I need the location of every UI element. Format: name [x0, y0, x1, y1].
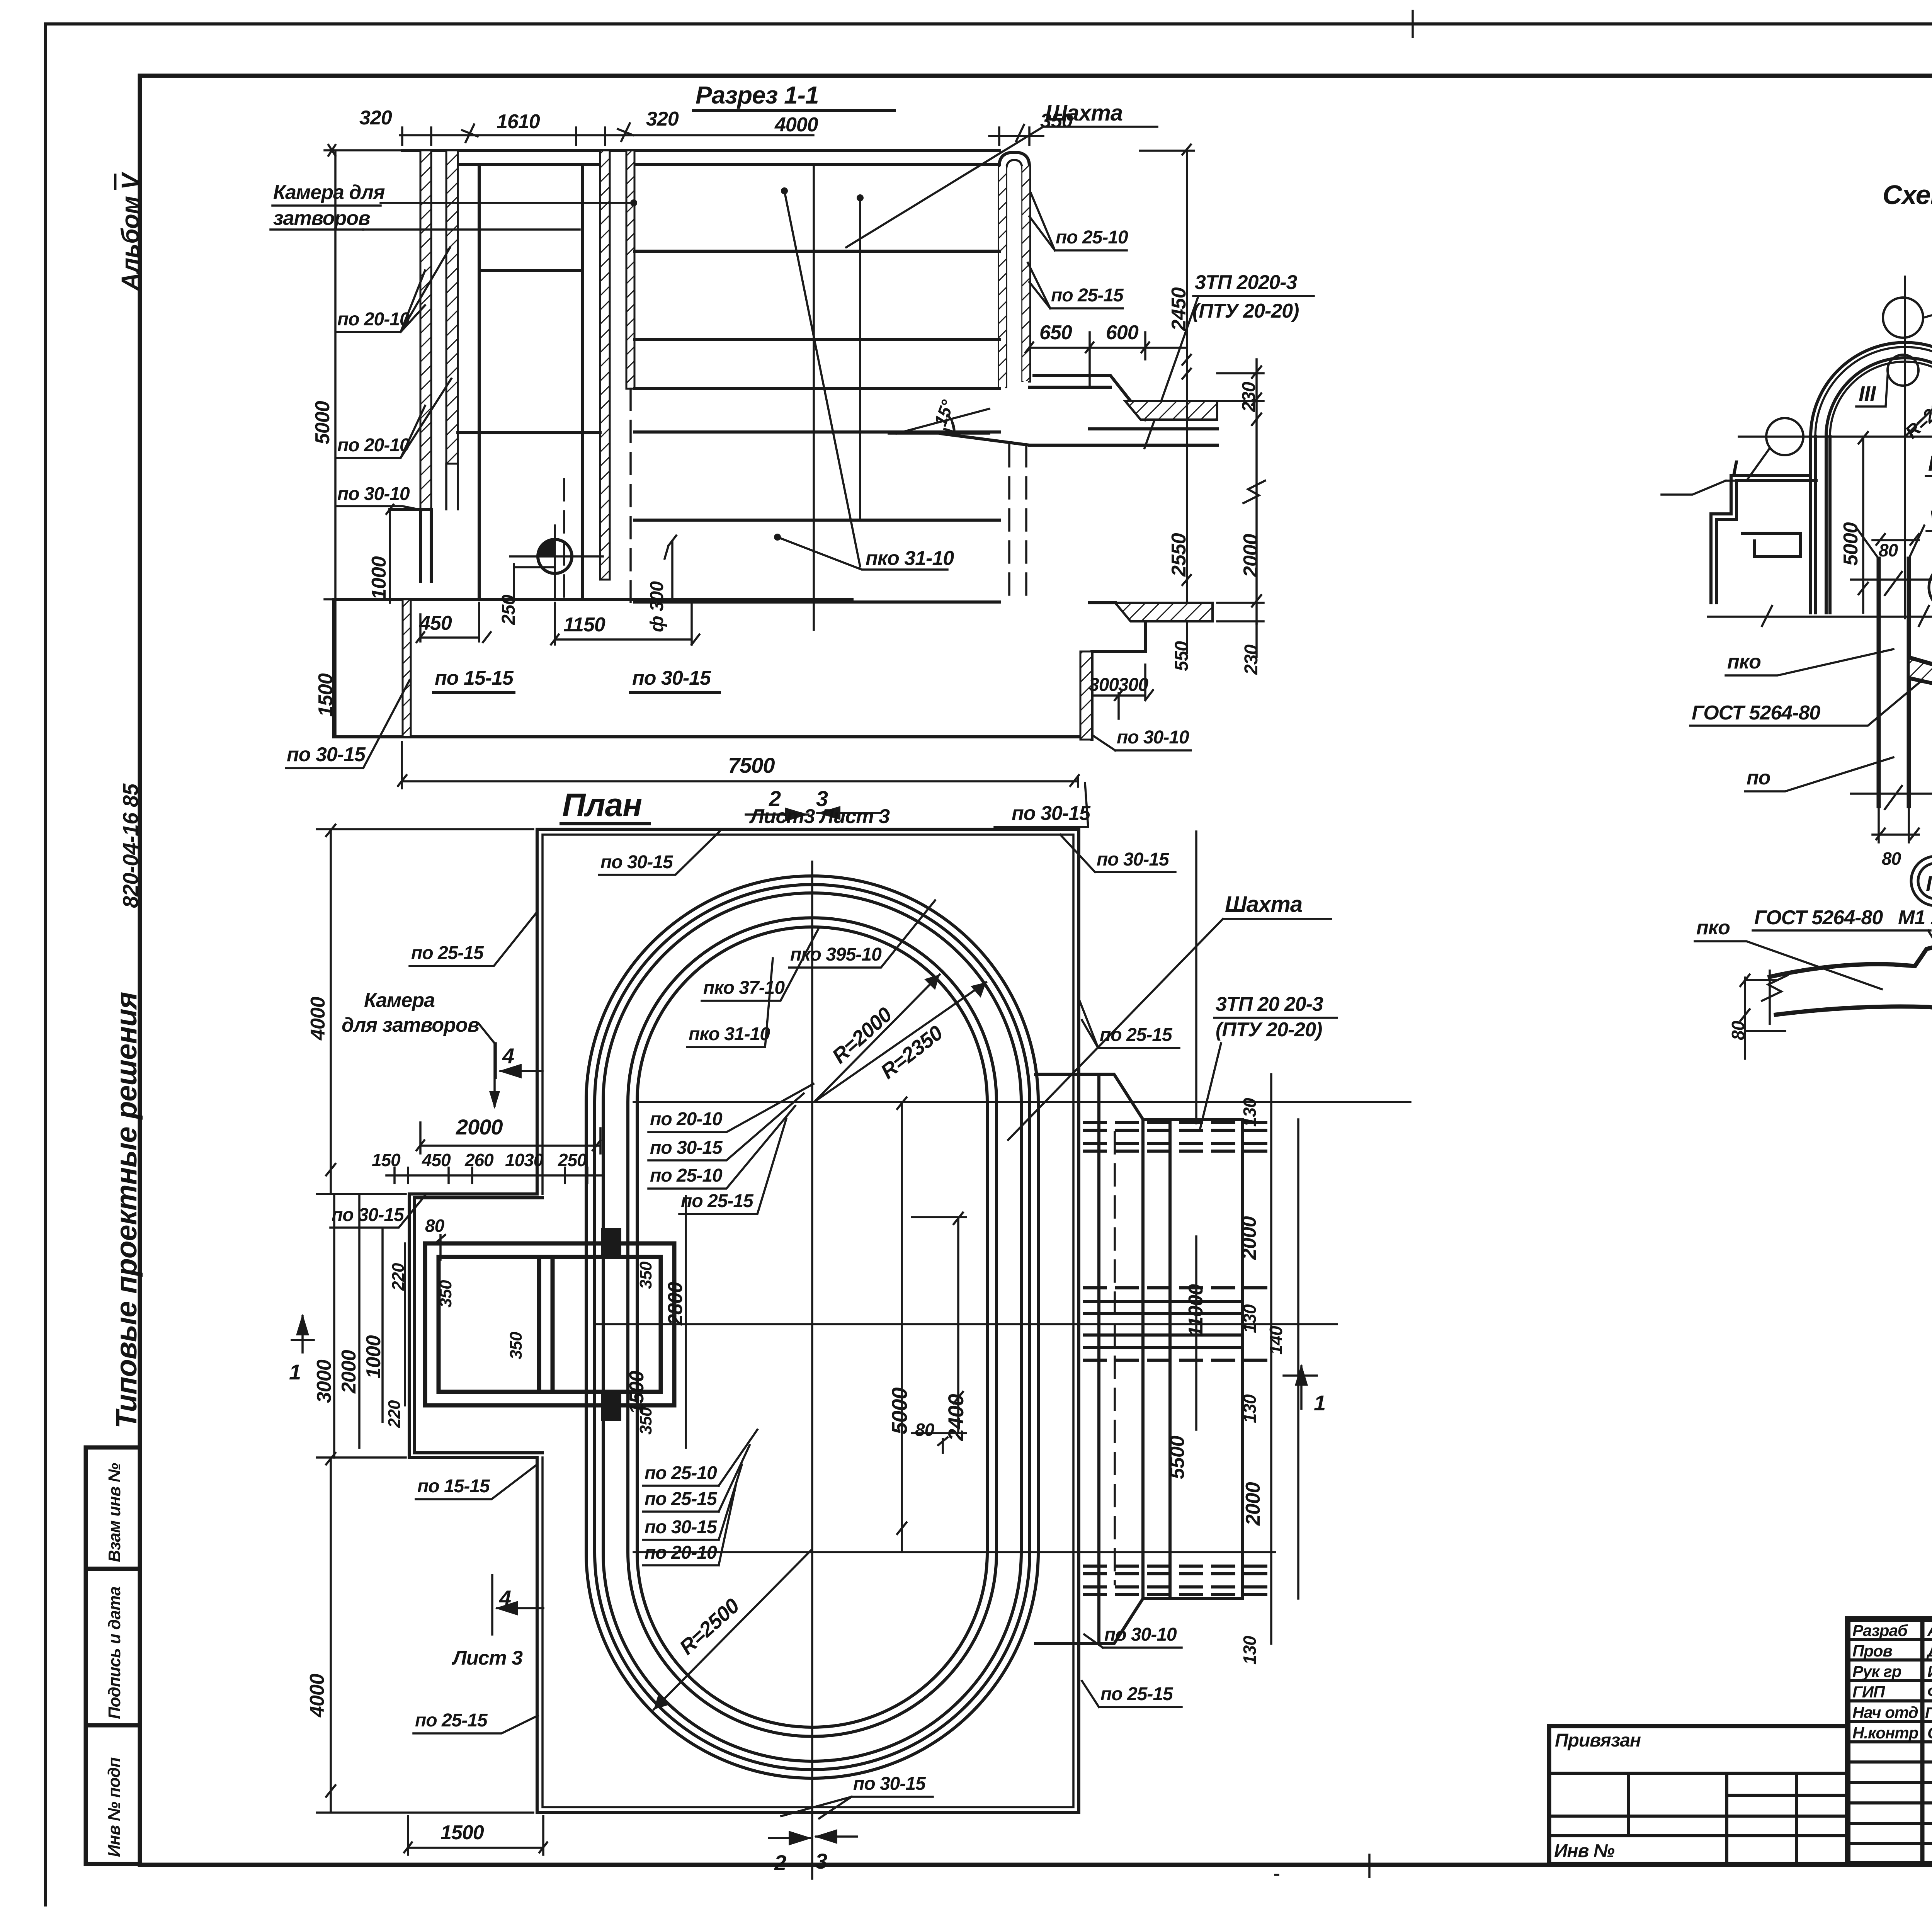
dim 130 a — [1240, 1098, 1260, 1127]
svg-text:III: III — [1859, 381, 1876, 406]
lower pipe dashed lines — [1084, 1566, 1271, 1595]
svg-text:Камера: Камера — [364, 989, 435, 1012]
svg-text:5000: 5000 — [1840, 522, 1862, 566]
svg-text:1: 1 — [1314, 1391, 1325, 1415]
svg-text:Лист 3: Лист 3 — [451, 1647, 523, 1669]
dashed verticals under right wall — [1009, 445, 1026, 603]
svg-text:1000: 1000 — [368, 556, 390, 600]
I flange hatch — [1909, 658, 1932, 683]
dim 130 c — [1240, 1394, 1260, 1423]
svg-text:IV: IV — [1928, 451, 1932, 475]
svg-text:Рук гр: Рук гр — [1852, 1662, 1901, 1680]
svg-text:пко 37-10: пко 37-10 — [703, 978, 785, 998]
dim 4000 upper left — [307, 997, 329, 1041]
svg-text:130: 130 — [1240, 1394, 1260, 1423]
outer border top — [46, 22, 1932, 26]
arch left wall — [1811, 437, 1830, 613]
outlet lower hatched slab — [1115, 603, 1213, 621]
svg-text:затворов: затворов — [273, 207, 370, 230]
svg-text:3ТП 20 20-3: 3ТП 20 20-3 — [1216, 993, 1323, 1015]
svg-text:по 25-10: по 25-10 — [645, 1463, 717, 1483]
svg-text:(ПТУ 20-20): (ПТУ 20-20) — [1192, 300, 1299, 322]
svg-text:для затворов: для затворов — [342, 1014, 480, 1036]
shaft centerline — [813, 165, 815, 630]
middle pipe lines — [1084, 1301, 1243, 1347]
svg-text:по 25-10: по 25-10 — [650, 1165, 723, 1186]
outlet pipe top lines — [1029, 376, 1145, 420]
svg-text:по 15-15: по 15-15 — [417, 1476, 490, 1497]
dim 2000 b — [1242, 1482, 1264, 1526]
dim 2400 — [944, 1394, 968, 1441]
upper pipe dashed lines — [1084, 1122, 1271, 1151]
horizontal centerline middle — [595, 1323, 1337, 1325]
svg-text:ГОСТ 5264-80: ГОСТ 5264-80 — [1754, 906, 1883, 929]
svg-text:1150: 1150 — [563, 614, 605, 636]
margin text 820-04-1685 — [118, 783, 143, 908]
dim 140 — [1266, 1326, 1286, 1355]
svg-text:300: 300 — [1089, 675, 1119, 695]
svg-text:по 30-15: по 30-15 — [332, 1205, 405, 1225]
break mark 2 — [618, 123, 633, 141]
detail circle I left — [1766, 418, 1803, 455]
svg-text:по 30-15: по 30-15 — [632, 667, 711, 689]
svg-text:по 30-15: по 30-15 — [650, 1138, 723, 1158]
svg-text:2800: 2800 — [664, 1282, 687, 1326]
dim 1000 left — [362, 1335, 385, 1379]
detail I wall — [1879, 559, 1909, 806]
shaft right wall W5 W6 with rounded cap — [999, 152, 1029, 387]
detail II slab — [1770, 947, 1932, 977]
horizontal centerline top arc — [634, 1101, 1410, 1103]
R=2350 arrow — [815, 982, 986, 1102]
outlet top hatched slab — [1125, 401, 1217, 420]
dim 5000 text — [311, 401, 334, 444]
chamber inner wall W2 lower — [446, 464, 458, 509]
chamber inner wall W2 hatched — [446, 150, 458, 464]
svg-text:Разрез 1-1: Разрез 1-1 — [696, 81, 819, 109]
stamp box podpis i data — [86, 1569, 140, 1725]
svg-text:по 20-10: по 20-10 — [337, 435, 410, 456]
svg-text:820-04-16 85: 820-04-16 85 — [118, 783, 143, 908]
svg-text:Девяшин: Девяшин — [1926, 1642, 1932, 1660]
svg-text:Франк: Франк — [1927, 1683, 1932, 1701]
right wall hatch — [999, 166, 1006, 387]
svg-text:по 25-10: по 25-10 — [1056, 227, 1128, 248]
svg-text:2000: 2000 — [1238, 1216, 1260, 1260]
vertical centerline — [811, 862, 813, 1801]
svg-text:80: 80 — [1882, 849, 1901, 869]
chamber annex boundary — [409, 1194, 543, 1458]
dim 4000 lower left — [306, 1673, 328, 1718]
svg-text:по: по — [1747, 767, 1770, 789]
svg-text:по 15-15: по 15-15 — [435, 667, 514, 689]
svg-text:Типовые проектные решения: Типовые проектные решения — [110, 992, 143, 1429]
stadium ring 5 inner — [637, 927, 987, 1727]
outer border left — [44, 24, 47, 1905]
R=2500 arrow — [654, 1550, 811, 1709]
plan outer boundary double line — [537, 829, 1079, 1813]
dim 220 bottom — [385, 1400, 404, 1428]
sig table columns — [1922, 1619, 1932, 1864]
chamber walls inner — [439, 1257, 661, 1392]
top line of structure — [402, 149, 999, 152]
SCHEMES — [1662, 180, 1932, 1078]
svg-text:Разраб: Разраб — [1852, 1621, 1908, 1639]
arch arc 2 — [1815, 347, 1932, 437]
svg-text:I: I — [1732, 456, 1738, 480]
foundation left hatched edge — [403, 599, 411, 737]
I wall flange — [1909, 657, 1932, 685]
svg-text:350: 350 — [636, 1261, 655, 1289]
svg-text:80: 80 — [1879, 540, 1898, 560]
svg-text:320: 320 — [646, 108, 679, 130]
dim 2000 left — [338, 1350, 360, 1394]
fold tick bottom center — [1275, 1855, 1369, 1877]
svg-text:5000: 5000 — [311, 401, 334, 444]
dim 5000 inner — [887, 1388, 912, 1434]
leader line with dot — [857, 194, 864, 201]
stadium ring 3 — [603, 893, 1021, 1761]
dim 220 top — [389, 1263, 408, 1291]
chamber central divider — [539, 1257, 553, 1392]
svg-text:130: 130 — [1240, 1098, 1260, 1127]
svg-text:Пров: Пров — [1852, 1642, 1893, 1660]
svg-text:Н.контр: Н.контр — [1852, 1724, 1918, 1742]
svg-text:350: 350 — [436, 1280, 455, 1308]
svg-text:по 30-15: по 30-15 — [287, 743, 366, 766]
dim 5500 — [1166, 1435, 1189, 1479]
floors in shaft — [634, 251, 999, 602]
svg-text:Инв № подп: Инв № подп — [105, 1757, 124, 1857]
I wall bottom break — [1851, 786, 1932, 809]
stamp box inv no podp — [86, 1725, 140, 1864]
svg-text:3000: 3000 — [313, 1359, 335, 1403]
svg-text:300: 300 — [1118, 675, 1148, 695]
horizontal centerline bottom arc — [634, 1551, 1275, 1553]
svg-text:600: 600 — [1106, 321, 1139, 344]
svg-text:220: 220 — [385, 1400, 404, 1428]
svg-text:пко 31-10: пко 31-10 — [866, 547, 954, 570]
svg-text:по 25-15: по 25-15 — [1100, 1025, 1173, 1045]
shaft left wall W4 hatched — [626, 150, 634, 389]
chamber right vertical line — [581, 165, 584, 599]
svg-text:2000: 2000 — [456, 1115, 503, 1139]
left annex step outline — [1711, 475, 1816, 603]
detail circle II top — [1883, 298, 1923, 338]
dim 2450 — [1168, 287, 1190, 331]
arch base line — [1708, 606, 1932, 626]
dim 3000 — [313, 1359, 335, 1403]
sig table rows — [1848, 1639, 1932, 1844]
annex table rows — [1549, 1773, 1848, 1864]
chamber ledge — [390, 508, 431, 511]
chamber wall W1 lower part — [420, 509, 431, 582]
dim 130 d — [1240, 1636, 1260, 1665]
svg-text:М1 10: М1 10 — [1898, 906, 1932, 929]
svg-text:230: 230 — [1241, 645, 1262, 675]
dim 2550 — [1168, 533, 1190, 577]
outlet top outline — [1036, 1074, 1243, 1119]
chamber pad top — [601, 1228, 621, 1259]
level mark circle — [538, 539, 572, 573]
svg-text:по 25-15: по 25-15 — [681, 1191, 754, 1211]
stamp box vzam inv — [86, 1447, 140, 1569]
svg-text:Лист3: Лист3 — [749, 805, 815, 828]
stadium ring 2 — [595, 884, 1030, 1769]
stadium ring 1 outer — [586, 876, 1038, 1778]
dim 130 b — [1240, 1304, 1260, 1333]
foundation right step — [1092, 621, 1145, 740]
svg-text:Камера для: Камера для — [273, 181, 385, 204]
svg-text:80: 80 — [425, 1216, 445, 1236]
svg-text:1000: 1000 — [362, 1335, 385, 1379]
svg-text:по 20-10: по 20-10 — [337, 309, 410, 330]
svg-text:ГИП: ГИП — [1852, 1683, 1885, 1701]
annex inner box — [1743, 533, 1801, 556]
svg-text:2: 2 — [774, 1850, 786, 1875]
svg-text:Альбом V: Альбом V — [116, 171, 144, 291]
svg-text:по 20-10: по 20-10 — [645, 1543, 717, 1563]
dashed wall continuation — [564, 389, 631, 602]
svg-text:ГОСТ 5264-80: ГОСТ 5264-80 — [1692, 702, 1820, 724]
svg-text:по 30-15: по 30-15 — [600, 852, 673, 872]
svg-text:по 20-10: по 20-10 — [650, 1109, 723, 1129]
svg-text:220: 220 — [389, 1263, 408, 1291]
dim 11000 — [1185, 1284, 1207, 1337]
margin text Tipovye proektnye resheniya — [110, 992, 143, 1429]
svg-text:3ТП 2020-3: 3ТП 2020-3 — [1195, 271, 1298, 294]
svg-text:(ПТУ 20-20): (ПТУ 20-20) — [1216, 1019, 1322, 1041]
outlet invert lines — [940, 429, 1217, 445]
svg-text:пко: пко — [1727, 651, 1761, 673]
svg-text:пко: пко — [1696, 917, 1730, 939]
15 deg slope mark — [930, 397, 958, 429]
svg-text:Писнячевский: Писнячевский — [1925, 1704, 1932, 1721]
svg-text:по 30-15: по 30-15 — [645, 1517, 718, 1537]
stadium ring 4 — [628, 918, 997, 1736]
svg-text:320: 320 — [359, 107, 392, 129]
dim 2000 right — [1240, 534, 1262, 578]
left dim 5000 line — [325, 145, 402, 737]
title block outer — [1848, 1619, 1932, 1864]
svg-text:3: 3 — [815, 1849, 827, 1873]
I circle symbol — [1929, 563, 1932, 611]
svg-text:4000: 4000 — [307, 997, 329, 1041]
svg-text:Аврамич: Аврамич — [1927, 1621, 1932, 1639]
dim 80 II — [1728, 1020, 1748, 1040]
svg-text:1: 1 — [289, 1360, 301, 1384]
dim fi300 — [647, 581, 667, 632]
svg-text:Привязан: Привязан — [1555, 1730, 1641, 1751]
I wall top break — [1851, 572, 1932, 595]
svg-text:250: 250 — [498, 595, 519, 625]
arch cross-section: outer arc — [1811, 342, 1932, 437]
annex table outline — [1549, 1726, 1848, 1864]
chamber pad bottom — [601, 1390, 621, 1421]
chamber left wall W1 hatched — [420, 150, 431, 509]
svg-text:ф 300: ф 300 — [647, 581, 667, 632]
chamber inner vertical line — [478, 165, 481, 599]
svg-text:Подпись и дата: Подпись и дата — [105, 1587, 124, 1719]
leader pko diagonal — [781, 187, 788, 194]
svg-text:1500: 1500 — [626, 1371, 648, 1414]
svg-text:по 30-10: по 30-10 — [1117, 727, 1189, 748]
dim 1500 mid — [626, 1371, 648, 1414]
svg-text:по 25-15: по 25-15 — [411, 943, 484, 963]
svg-text:по 25-15: по 25-15 — [1100, 1684, 1173, 1704]
outlet verticals — [1099, 1076, 1243, 1642]
svg-text:4: 4 — [502, 1044, 514, 1068]
dim 2800 — [664, 1282, 687, 1326]
chamber walls outer — [425, 1243, 674, 1405]
svg-text:по 25-15: по 25-15 — [415, 1710, 488, 1731]
svg-text:450: 450 — [422, 1150, 451, 1170]
svg-text:2000: 2000 — [1240, 534, 1262, 578]
R=2000 arch — [1901, 385, 1932, 443]
R=2000 arrow — [815, 975, 940, 1102]
svg-text:5000: 5000 — [887, 1388, 912, 1434]
svg-text:Иоффе: Иоффе — [1927, 1662, 1932, 1680]
dim 350 marks — [436, 1280, 455, 1308]
svg-text:130: 130 — [1240, 1304, 1260, 1333]
svg-text:2000: 2000 — [1242, 1482, 1264, 1526]
left dim verticals — [334, 1194, 405, 1458]
dim 230 upper — [1239, 382, 1259, 412]
right dim verticals — [1271, 1074, 1298, 1644]
svg-text:План: План — [562, 787, 642, 823]
dim 230 lower — [1241, 645, 1262, 675]
springing line — [1739, 435, 1932, 438]
dim 1500 text — [315, 673, 337, 717]
detail circle III small — [1888, 355, 1918, 386]
svg-text:Нач отд: Нач отд — [1852, 1703, 1918, 1721]
margin text Album V — [116, 171, 144, 291]
svg-text:Взам инв №: Взам инв № — [105, 1463, 124, 1562]
arch arc 4 — [1830, 362, 1932, 437]
top dim line — [400, 128, 813, 145]
II slab breaks — [1762, 959, 1932, 1024]
fold tick top center — [1412, 11, 1414, 37]
dim 5000 arch — [1840, 522, 1862, 566]
break mark — [462, 124, 478, 142]
label pko 31-10 — [774, 534, 781, 541]
dim 2000 a — [1238, 1216, 1260, 1260]
dim 550 — [1172, 641, 1192, 671]
svg-text:150: 150 — [372, 1150, 401, 1170]
II circle symbol — [1911, 856, 1932, 906]
svg-text:7500: 7500 — [728, 753, 775, 777]
svg-text:Шахта: Шахта — [1045, 100, 1122, 126]
svg-text:по 25-15: по 25-15 — [1051, 285, 1124, 306]
svg-text:V: V — [1929, 506, 1932, 530]
svg-text:Схемы соединения плит-оболочек: Схемы соединения плит-оболочек — [1883, 180, 1932, 210]
svg-text:650: 650 — [1039, 321, 1072, 344]
svg-text:1030: 1030 — [505, 1150, 544, 1170]
svg-text:II: II — [1926, 871, 1932, 896]
dim 1000 — [386, 505, 393, 603]
dim 250 — [498, 595, 519, 625]
svg-text:по 25-15: по 25-15 — [645, 1489, 718, 1509]
svg-text:350: 350 — [507, 1332, 526, 1359]
svg-text:80: 80 — [915, 1420, 935, 1440]
outlet bottom outline — [1036, 1599, 1243, 1644]
svg-text:по 30-15: по 30-15 — [1012, 802, 1091, 825]
svg-text:по 30-15: по 30-15 — [1097, 849, 1170, 870]
svg-text:4000: 4000 — [306, 1673, 328, 1718]
TITLE BLOCK — [1549, 1540, 1932, 1907]
svg-text:4000: 4000 — [774, 114, 818, 136]
svg-text:по 30-10: по 30-10 — [337, 484, 410, 504]
svg-text:Шахта: Шахта — [1225, 892, 1302, 917]
arch centerline — [1904, 277, 1906, 618]
shaft left wall W3 hatched — [600, 150, 610, 580]
foundation slab — [334, 599, 1092, 737]
svg-text:Лист 3: Лист 3 — [818, 805, 890, 828]
svg-text:260: 260 — [464, 1150, 494, 1170]
svg-text:Сильченко: Сильченко — [1927, 1724, 1932, 1742]
svg-text:550: 550 — [1172, 641, 1192, 671]
PLAN VIEW — [289, 786, 1410, 1879]
top line inner — [458, 163, 999, 166]
break z on dim — [1243, 481, 1265, 503]
outlet dashed vertical — [1114, 1132, 1116, 1584]
svg-text:140: 140 — [1266, 1326, 1286, 1355]
step hatch — [1080, 651, 1092, 740]
floors in chamber — [458, 270, 600, 433]
svg-text:1500: 1500 — [440, 1821, 484, 1844]
svg-text:по 30-15: по 30-15 — [853, 1774, 926, 1794]
svg-text:1610: 1610 — [497, 111, 540, 133]
svg-text:5500: 5500 — [1166, 1435, 1189, 1479]
svg-text:пко 31-10: пко 31-10 — [689, 1024, 770, 1044]
arch arc 3 — [1826, 358, 1932, 437]
SECTION VIEW — [270, 81, 1314, 827]
svg-text:Инв №: Инв № — [1554, 1841, 1615, 1861]
svg-text:250: 250 — [558, 1150, 587, 1170]
svg-text:130: 130 — [1240, 1636, 1260, 1665]
svg-text:2000: 2000 — [338, 1350, 360, 1394]
svg-text:по 30-10: по 30-10 — [1104, 1624, 1177, 1645]
